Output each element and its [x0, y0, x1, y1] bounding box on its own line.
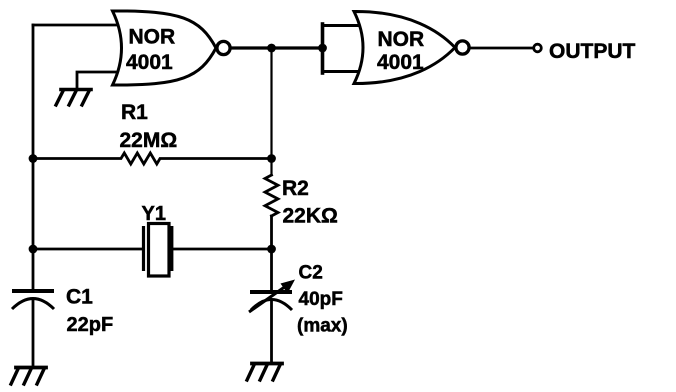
svg-text:R1: R1	[121, 101, 148, 124]
svg-text:4001: 4001	[126, 51, 173, 74]
svg-text:NOR: NOR	[129, 26, 176, 49]
svg-text:C1: C1	[66, 286, 93, 309]
svg-text:4001: 4001	[377, 51, 424, 74]
svg-text:NOR: NOR	[378, 28, 425, 51]
svg-text:OUTPUT: OUTPUT	[549, 40, 636, 63]
svg-text:R2: R2	[282, 177, 309, 200]
svg-text:22KΩ: 22KΩ	[283, 205, 338, 228]
svg-text:(max): (max)	[297, 316, 348, 337]
svg-text:22MΩ: 22MΩ	[120, 129, 178, 152]
svg-text:40pF: 40pF	[299, 289, 343, 310]
svg-text:22pF: 22pF	[67, 314, 114, 336]
svg-text:C2: C2	[299, 263, 323, 284]
svg-text:Y1: Y1	[142, 203, 166, 225]
